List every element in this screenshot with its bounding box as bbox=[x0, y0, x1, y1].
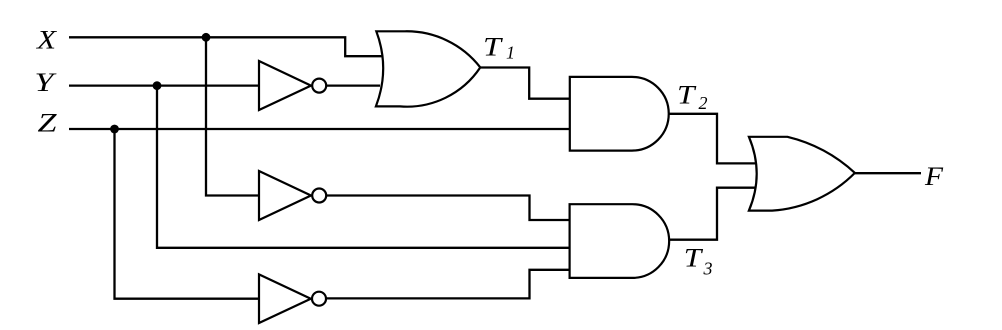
svg-text:X: X bbox=[36, 25, 58, 54]
svg-text:T: T bbox=[483, 33, 503, 62]
svg-text:F: F bbox=[924, 162, 944, 191]
svg-text:1: 1 bbox=[506, 43, 515, 63]
svg-text:Z: Z bbox=[38, 109, 58, 138]
svg-text:2: 2 bbox=[699, 93, 708, 113]
svg-text:T: T bbox=[677, 81, 696, 110]
svg-text:Y: Y bbox=[35, 68, 57, 97]
svg-text:T: T bbox=[684, 244, 703, 273]
svg-text:3: 3 bbox=[703, 259, 713, 279]
